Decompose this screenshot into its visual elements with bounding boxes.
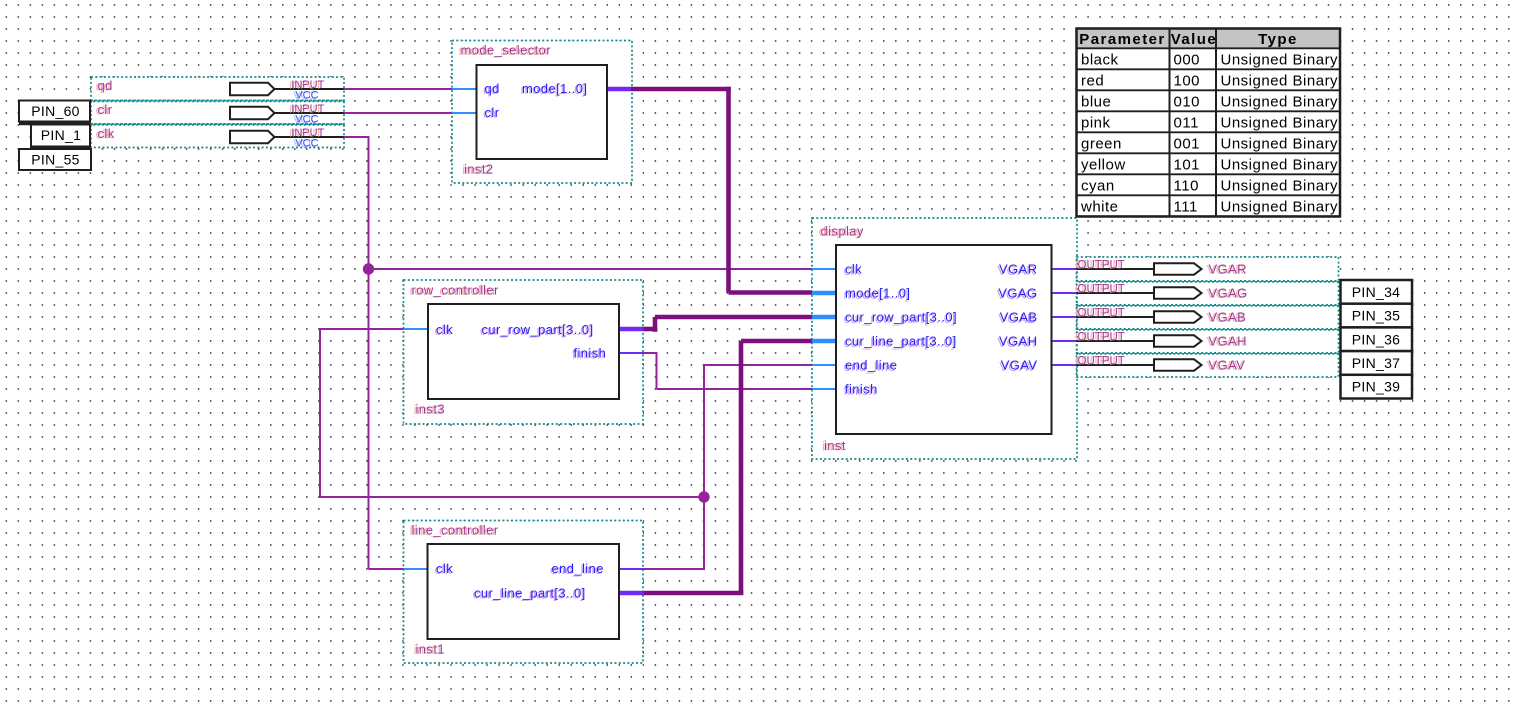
svg-text:VGAG: VGAG xyxy=(1209,286,1248,301)
svg-text:row_controller: row_controller xyxy=(412,283,500,298)
svg-text:VGAB: VGAB xyxy=(1209,310,1247,325)
svg-text:Unsigned Binary: Unsigned Binary xyxy=(1221,52,1339,69)
svg-text:PIN_36: PIN_36 xyxy=(1352,331,1401,347)
svg-text:black: black xyxy=(1081,52,1119,69)
svg-text:VCC: VCC xyxy=(295,114,318,126)
svg-text:VGAV: VGAV xyxy=(1209,358,1246,373)
svg-text:clk: clk xyxy=(845,262,862,277)
svg-text:Type: Type xyxy=(1258,31,1298,48)
svg-text:clk: clk xyxy=(98,126,115,141)
svg-text:green: green xyxy=(1081,136,1122,153)
svg-text:VCC: VCC xyxy=(295,90,318,102)
svg-text:OUTPUT: OUTPUT xyxy=(1078,283,1125,295)
svg-text:white: white xyxy=(1080,199,1119,216)
svg-text:011: 011 xyxy=(1174,115,1199,132)
svg-text:101: 101 xyxy=(1174,157,1201,174)
svg-text:qd: qd xyxy=(485,81,500,96)
svg-text:000: 000 xyxy=(1174,52,1201,69)
svg-text:qd: qd xyxy=(98,78,113,93)
svg-text:blue: blue xyxy=(1081,94,1111,111)
svg-text:mode_selector: mode_selector xyxy=(461,43,552,58)
svg-text:VCC: VCC xyxy=(295,138,318,150)
svg-text:VGAG: VGAG xyxy=(998,286,1037,301)
svg-text:Unsigned Binary: Unsigned Binary xyxy=(1221,73,1339,90)
svg-text:Unsigned Binary: Unsigned Binary xyxy=(1221,94,1339,111)
svg-text:inst1: inst1 xyxy=(416,642,445,657)
svg-text:VGAH: VGAH xyxy=(999,334,1037,349)
svg-text:PIN_37: PIN_37 xyxy=(1352,355,1401,371)
svg-text:Unsigned Binary: Unsigned Binary xyxy=(1221,178,1339,195)
svg-text:finish: finish xyxy=(845,382,878,397)
svg-text:finish: finish xyxy=(574,346,607,361)
svg-text:inst3: inst3 xyxy=(416,402,445,417)
svg-text:Parameter: Parameter xyxy=(1079,31,1165,48)
svg-text:PIN_39: PIN_39 xyxy=(1352,379,1401,395)
svg-text:110: 110 xyxy=(1174,178,1199,195)
svg-text:111: 111 xyxy=(1174,199,1198,216)
svg-text:VGAR: VGAR xyxy=(999,262,1037,277)
svg-text:PIN_35: PIN_35 xyxy=(1352,308,1401,324)
svg-text:Unsigned Binary: Unsigned Binary xyxy=(1221,199,1339,216)
svg-text:inst2: inst2 xyxy=(464,162,493,177)
svg-text:display: display xyxy=(821,224,864,239)
svg-text:line_controller: line_controller xyxy=(412,523,499,538)
svg-text:red: red xyxy=(1081,73,1104,90)
svg-text:clk: clk xyxy=(436,322,453,337)
svg-text:end_line: end_line xyxy=(845,358,897,373)
svg-text:VGAB: VGAB xyxy=(1000,310,1038,325)
svg-text:yellow: yellow xyxy=(1081,157,1126,174)
svg-text:Value: Value xyxy=(1171,31,1217,48)
svg-text:Unsigned Binary: Unsigned Binary xyxy=(1221,157,1339,174)
svg-text:100: 100 xyxy=(1174,73,1201,90)
svg-text:clk: clk xyxy=(436,561,453,576)
svg-text:clr: clr xyxy=(98,102,113,117)
svg-text:PIN_55: PIN_55 xyxy=(31,152,80,168)
svg-text:cur_row_part[3..0]: cur_row_part[3..0] xyxy=(845,310,957,325)
svg-text:VGAR: VGAR xyxy=(1209,262,1247,277)
svg-text:inst: inst xyxy=(824,438,846,453)
svg-text:end_line: end_line xyxy=(552,561,604,576)
svg-text:Unsigned Binary: Unsigned Binary xyxy=(1221,136,1339,153)
svg-text:clr: clr xyxy=(485,105,500,120)
svg-text:OUTPUT: OUTPUT xyxy=(1078,331,1125,343)
svg-text:OUTPUT: OUTPUT xyxy=(1078,259,1125,271)
svg-text:010: 010 xyxy=(1174,94,1201,111)
svg-text:OUTPUT: OUTPUT xyxy=(1078,355,1125,367)
svg-text:VGAV: VGAV xyxy=(1001,358,1038,373)
svg-text:mode[1..0]: mode[1..0] xyxy=(845,286,910,301)
svg-text:pink: pink xyxy=(1081,115,1111,132)
svg-text:PIN_34: PIN_34 xyxy=(1352,284,1401,300)
svg-text:001: 001 xyxy=(1174,136,1201,153)
svg-text:cur_line_part[3..0]: cur_line_part[3..0] xyxy=(845,334,957,349)
svg-text:PIN_60: PIN_60 xyxy=(31,103,80,119)
svg-text:PIN_1: PIN_1 xyxy=(41,127,81,143)
svg-text:VGAH: VGAH xyxy=(1209,334,1247,349)
svg-text:cur_line_part[3..0]: cur_line_part[3..0] xyxy=(474,586,586,601)
svg-text:OUTPUT: OUTPUT xyxy=(1078,307,1125,319)
svg-text:mode[1..0]: mode[1..0] xyxy=(522,81,587,96)
svg-text:cyan: cyan xyxy=(1081,178,1115,195)
svg-text:cur_row_part[3..0]: cur_row_part[3..0] xyxy=(482,322,594,337)
svg-text:Unsigned Binary: Unsigned Binary xyxy=(1221,115,1339,132)
